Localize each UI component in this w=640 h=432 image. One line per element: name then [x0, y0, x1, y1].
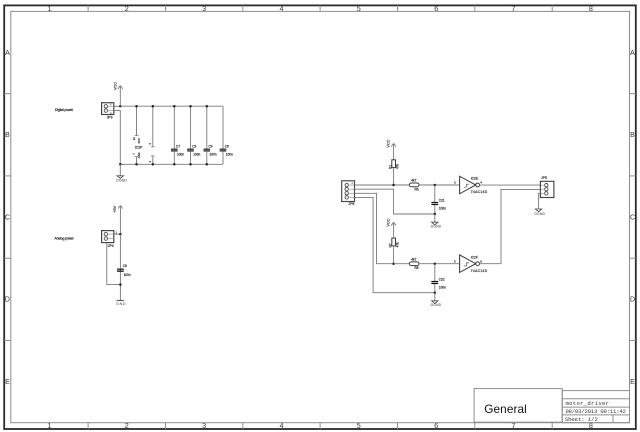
svg-text:JP6: JP6 — [349, 202, 355, 206]
frame row ticks right — [630, 94, 636, 341]
svg-text:E: E — [5, 379, 10, 386]
power +5V — [113, 205, 123, 234]
svg-text:3: 3 — [202, 421, 206, 430]
resistor R1 — [388, 160, 399, 185]
resistor R6 — [409, 179, 419, 192]
wire JP4 pin1 to +5V net — [114, 233, 121, 235]
resistor R7 — [388, 238, 399, 264]
wire IC2E output to JP5 pin1 — [480, 184, 541, 186]
junction R1/signal upper — [392, 184, 395, 187]
frame column ticks top — [88, 5, 552, 11]
svg-text:R8: R8 — [414, 266, 418, 270]
svg-text:+5V: +5V — [113, 205, 117, 212]
wire JP4 pin2 to ground — [107, 243, 121, 285]
svg-text:Sheet: 1/2: Sheet: 1/2 — [565, 416, 598, 423]
svg-text:4: 4 — [280, 4, 284, 13]
svg-text:5: 5 — [454, 259, 456, 263]
svg-text:6: 6 — [480, 259, 482, 263]
ground DGND (C22) — [431, 293, 442, 308]
junction ground analog — [119, 283, 122, 286]
svg-text:R6: R6 — [414, 187, 418, 191]
svg-text:100n: 100n — [439, 286, 446, 290]
frame column labels top — [48, 4, 593, 13]
wire +5V net vertical — [119, 234, 121, 301]
junction spare bottom — [152, 163, 155, 166]
junction IC2P top — [135, 105, 138, 108]
svg-text:C: C — [630, 214, 635, 221]
svg-text:B: B — [630, 132, 635, 139]
svg-text:5: 5 — [357, 4, 361, 13]
wire JP6 pin2 ground path upper — [355, 189, 435, 214]
svg-text:JP5: JP5 — [541, 176, 547, 180]
power VCC (lower pullup) — [387, 218, 396, 238]
svg-text:DGND: DGND — [116, 178, 127, 182]
junction C9 top — [206, 105, 209, 108]
svg-text:2: 2 — [125, 421, 129, 430]
svg-text:R1: R1 — [388, 165, 392, 169]
svg-text:Analog power: Analog power — [55, 237, 75, 241]
svg-text:6: 6 — [434, 4, 438, 13]
svg-text:100n: 100n — [177, 153, 184, 157]
svg-text:motor_driver: motor_driver — [566, 400, 610, 407]
svg-text:DGND: DGND — [534, 212, 545, 216]
wire JP6 pin4 ground path lower — [355, 197, 435, 292]
svg-text:JP3: JP3 — [107, 115, 113, 119]
ground GND (analog) — [116, 300, 126, 306]
svg-text:1: 1 — [48, 421, 52, 430]
op-amp U2 inverter IC2F — [454, 255, 488, 273]
capacitor C6 — [220, 106, 233, 164]
svg-text:A: A — [630, 50, 635, 57]
spare gate pin upper — [148, 106, 154, 147]
svg-text:4k7: 4k7 — [411, 179, 416, 183]
junction C7 bottom — [173, 163, 176, 166]
wire JP3 pin2 down to ground rail — [114, 111, 121, 165]
junction C22 top — [434, 262, 437, 265]
svg-text:IC2P: IC2P — [135, 146, 143, 150]
svg-text:14: 14 — [132, 137, 136, 140]
junction R7/signal lower — [392, 262, 395, 265]
title block data box — [562, 391, 629, 423]
frame column ticks bottom — [88, 423, 552, 429]
svg-text:IC2F: IC2F — [471, 256, 478, 260]
svg-text:IC2E: IC2E — [471, 177, 479, 181]
svg-text:D: D — [5, 297, 10, 304]
svg-text:A: A — [5, 50, 10, 57]
svg-text:2: 2 — [148, 143, 152, 145]
svg-text:C8: C8 — [123, 264, 127, 268]
svg-text:47k: 47k — [395, 163, 399, 169]
svg-text:3: 3 — [454, 181, 456, 185]
wire JP3 pin1 to VCC rail — [114, 105, 121, 107]
svg-text:C7: C7 — [176, 144, 180, 148]
connector JP4 — [102, 231, 118, 248]
wire junction to R8 — [394, 263, 410, 265]
junction C9 bottom — [206, 163, 209, 166]
svg-text:E: E — [630, 379, 635, 386]
svg-text:100n: 100n — [193, 153, 200, 157]
svg-text:6: 6 — [434, 421, 438, 430]
capacitor C7 — [171, 106, 184, 164]
frame column labels bottom — [48, 421, 593, 430]
svg-text:4: 4 — [480, 181, 482, 185]
svg-text:General: General — [484, 402, 527, 416]
junction bottom rail left — [119, 163, 122, 166]
svg-text:C21: C21 — [439, 198, 445, 202]
svg-text:C: C — [5, 214, 10, 221]
title block General box — [474, 389, 562, 423]
wire R8 to IC2F input — [419, 263, 460, 265]
capacitor C3 — [187, 106, 200, 164]
resistor R8 — [409, 257, 419, 270]
title block text motor_driver — [566, 400, 610, 407]
svg-text:VCC: VCC — [387, 218, 391, 226]
capacitor C9 — [204, 106, 217, 164]
wire bottom rail (digital ground bus) — [120, 163, 223, 165]
svg-text:5: 5 — [357, 421, 361, 430]
svg-text:74AC14D: 74AC14D — [471, 190, 488, 194]
wire JP5 pin3 to DGND — [539, 193, 541, 208]
junction C21 top — [434, 184, 437, 187]
svg-text:1: 1 — [48, 4, 52, 13]
svg-text:100n: 100n — [210, 153, 217, 157]
wire IC2F output to JP5 pin2 — [480, 189, 541, 263]
svg-text:100n: 100n — [226, 153, 233, 157]
svg-text:100n: 100n — [124, 273, 131, 277]
junction C7 top — [173, 105, 176, 108]
wire top rail (digital VCC bus) — [120, 105, 223, 107]
wire JP6 pin1 to R6 (upper signal) — [355, 184, 410, 186]
svg-text:1: 1 — [110, 104, 112, 106]
wire R6 to IC2E input — [419, 184, 460, 186]
svg-text:7: 7 — [512, 4, 516, 13]
ground DGND (digital power) — [116, 164, 127, 182]
ground DGND (C21) — [431, 214, 442, 228]
svg-text:C6: C6 — [225, 144, 229, 148]
svg-text:DGND: DGND — [431, 224, 442, 228]
op-amp U1 inverter IC2E — [454, 176, 488, 194]
svg-text:100n: 100n — [439, 207, 446, 211]
svg-text:C3: C3 — [192, 144, 196, 148]
junction C3 bottom — [189, 163, 192, 166]
svg-text:R7: R7 — [388, 243, 392, 247]
capacitor C21 — [431, 185, 446, 214]
svg-text:VCC: VCC — [113, 82, 117, 90]
svg-text:C22: C22 — [439, 277, 445, 281]
svg-text:D: D — [630, 297, 635, 304]
svg-text:2: 2 — [148, 160, 152, 162]
junction C3 top — [189, 105, 192, 108]
title block text sheet — [565, 416, 598, 423]
frame row labels left — [5, 50, 10, 386]
svg-text:4: 4 — [280, 421, 284, 430]
IC2P power pin VCC — [132, 106, 141, 143]
svg-text:VCC: VCC — [137, 138, 141, 144]
svg-text:1: 1 — [352, 183, 354, 185]
capacitor C8 — [117, 264, 131, 277]
junction JP4 pin1 — [119, 233, 122, 236]
svg-text:JP4: JP4 — [108, 244, 114, 248]
junction spare top — [152, 105, 155, 108]
junction C21 bottom — [434, 213, 437, 216]
title block text date — [566, 408, 626, 415]
svg-text:7: 7 — [132, 153, 136, 155]
junction IC2P bottom — [135, 163, 138, 166]
svg-text:Digital power: Digital power — [55, 108, 74, 112]
svg-text:8: 8 — [589, 4, 593, 13]
svg-text:C9: C9 — [209, 144, 213, 148]
section label Analog power — [55, 237, 75, 241]
frame row ticks left — [4, 94, 11, 341]
svg-text:47k: 47k — [395, 242, 399, 248]
capacitor C22 — [431, 264, 446, 293]
wire JP6 pin3 to lower signal — [355, 193, 394, 263]
ground DGND (JP5) — [534, 209, 545, 216]
svg-text:GND: GND — [137, 152, 141, 158]
IC2P label — [135, 146, 143, 150]
svg-text:VCC: VCC — [387, 139, 391, 147]
IC2P power pin GND — [132, 152, 141, 164]
junction C22 bottom — [434, 291, 437, 294]
svg-text:4k7: 4k7 — [411, 257, 416, 261]
frame row labels right — [630, 50, 635, 386]
section label Digital power — [55, 108, 74, 112]
power VCC (upper pullup) — [387, 139, 396, 159]
connector JP3 — [102, 103, 114, 120]
spare gate pin lower — [148, 156, 154, 164]
svg-text:08/03/2013 09:11:42: 08/03/2013 09:11:42 — [566, 408, 626, 415]
svg-text:DGND: DGND — [431, 303, 442, 307]
svg-text:3: 3 — [202, 4, 206, 13]
connector JP6 — [342, 181, 355, 206]
svg-text:GND: GND — [116, 302, 126, 306]
power VCC (digital) — [113, 82, 122, 106]
junction JP3/VCC/top rail — [119, 105, 122, 108]
svg-text:74AC14D: 74AC14D — [471, 269, 488, 273]
connector JP5 — [540, 176, 554, 197]
svg-text:B: B — [5, 132, 10, 139]
svg-text:2: 2 — [125, 4, 129, 13]
